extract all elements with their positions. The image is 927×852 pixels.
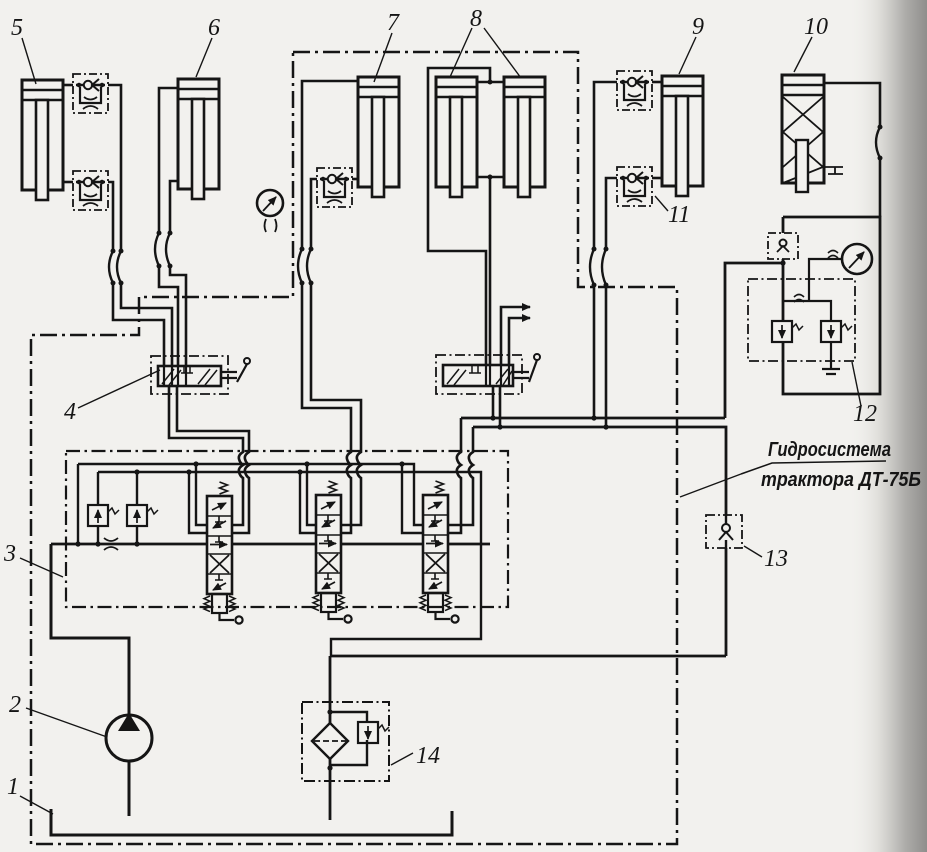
relief valve in block 3 right [127, 505, 158, 526]
upper trunk line to unit 12 [461, 263, 783, 418]
spool section 2 loop wires [300, 464, 316, 533]
wire cylinder7 top port down to spool section 2 [302, 81, 358, 533]
pressure gauge near cylinder 6 [257, 190, 283, 216]
svg-text:10: 10 [804, 14, 828, 40]
svg-text:11: 11 [668, 202, 690, 228]
valve 4b internal flow symbols [447, 365, 512, 386]
pump suction line to tank [128, 761, 131, 816]
wire valve4 output B to spool section 1 [177, 386, 249, 533]
svg-text:14: 14 [416, 743, 440, 769]
hose coupling on line A of cylinder 5 [117, 251, 121, 283]
system boundary dash-dot border [31, 52, 677, 844]
svg-text:Гидросистема: Гидросистема [768, 439, 891, 461]
relief valve in block 3 left [88, 505, 119, 526]
hand control valve 4 dash-dot enclosure [151, 356, 228, 394]
pump supply riser [51, 544, 129, 716]
cylinder 10 single acting with spring [782, 75, 843, 192]
svg-text:4: 4 [64, 399, 76, 425]
wire cylinder9 lower line down to trunk [606, 178, 617, 427]
cylinder 6 [178, 79, 219, 199]
valve 4 hand lever [221, 364, 247, 382]
check valve 13 symbol [722, 524, 730, 532]
filter bypass relief valve [330, 712, 367, 765]
return manifold line to filter unit [330, 655, 726, 658]
internal bus A of block 3 [78, 464, 423, 544]
coupling symbol on pressure rail [104, 538, 118, 550]
pilot check valve at cylinder 9 lower port [617, 167, 652, 206]
wire cylinder9 lower port [652, 177, 662, 180]
svg-text:12: 12 [853, 401, 877, 427]
spool section 2 [313, 481, 352, 623]
svg-text:трактора ДТ-75Б: трактора ДТ-75Б [761, 469, 921, 491]
filter outlet to tank [329, 759, 332, 820]
distributor block 3 dash-dot enclosure [66, 451, 508, 607]
wire cylinder9 upper port [652, 81, 662, 84]
unit 12 gauge [842, 244, 872, 274]
wire from lower check valve down to distributor 4 [108, 182, 164, 366]
hand control valve 4b body [443, 365, 513, 386]
take-off line with arrow upper [501, 307, 530, 365]
internal bus B of block 3 and return line to filter [98, 472, 481, 656]
hose coupling on cylinder9 line B [602, 249, 606, 285]
cylinder 8 right [504, 77, 545, 197]
trunk riser to spool section 3 line B [448, 427, 473, 525]
hose coupling on cylinder9 line A [590, 249, 594, 285]
unit 12 outer body [783, 217, 880, 394]
pilot check valve at cylinder 9 upper port [617, 71, 652, 110]
check valve in unit 12 dash-dot box [768, 233, 798, 259]
annotation leader line [741, 461, 886, 474]
hose coupling on cylinder7 line A [298, 249, 302, 283]
hand control valve 4 body [158, 366, 221, 386]
wire cylinder10 to right riser [824, 83, 880, 217]
spool section 1 [204, 482, 243, 624]
spool section 1 loop wires [189, 464, 207, 533]
wire valve 4b to lower trunk line [499, 386, 502, 427]
cylinder 5 [22, 80, 63, 200]
pilot check valve at cylinder 5 lower port [73, 171, 108, 210]
hand control valve 4b dash-dot enclosure [436, 355, 522, 394]
unit 12 dash-dot enclosure [748, 279, 855, 361]
wire cylinder5 bottom to valve [63, 181, 73, 184]
wire cylinder5 top to valve [63, 84, 73, 87]
filter unit 14 dash-dot enclosure [302, 702, 389, 781]
pilot check valve at cylinder 7 lower port [317, 168, 352, 207]
wire valve4 output A to spool section 1 [169, 386, 243, 525]
pump 2 [106, 715, 152, 761]
filter element [312, 723, 348, 759]
wire cylinder7 lower line down to spool section 2 [311, 179, 361, 525]
wire joining bottoms of cylinders 8 [477, 177, 504, 365]
check valve 13 dash-dot enclosure [706, 515, 742, 548]
svg-text:1: 1 [7, 774, 19, 800]
svg-text:7: 7 [387, 10, 400, 36]
scan shadow on right edge [848, 0, 927, 852]
cylinder 7 [358, 77, 399, 197]
svg-text:13: 13 [764, 546, 788, 572]
hose coupling on cylinder10 riser [876, 127, 880, 158]
wire cylinder7 lower port [352, 178, 358, 181]
svg-text:2: 2 [9, 692, 21, 718]
svg-text:3: 3 [3, 541, 16, 567]
svg-text:5: 5 [11, 15, 23, 41]
cylinder 9 [662, 76, 703, 196]
unit 12 drain to tank symbol [822, 342, 840, 374]
trunk riser to spool section 3 line A [448, 418, 461, 533]
lower trunk line to check valve 13 [473, 427, 726, 656]
take-off line with arrow lower [509, 318, 530, 365]
relief valve b in unit 12 [821, 321, 852, 342]
pilot check valve at cylinder 5 upper port [73, 74, 108, 113]
relief valve a in unit 12 [772, 321, 803, 342]
filter inlet line [329, 656, 332, 723]
hose coupling on cylinder7 line B [307, 249, 311, 283]
hose coupling on cylinder6 line B [166, 233, 170, 266]
spool section 3 [420, 481, 459, 623]
spool section 3 loop wires [402, 464, 423, 533]
wire cylinder6 bottom port down [170, 181, 186, 366]
wire joining tops of cylinders 8 [428, 68, 504, 365]
wire valve 4b to upper trunk line [492, 386, 495, 418]
hose coupling on line B of cylinder 5 [109, 251, 113, 283]
pressure rail from pump through spool sections [51, 543, 490, 546]
valve 4 internal flow symbols [162, 366, 217, 386]
wire cylinder9 upper line down to trunk [594, 82, 617, 418]
cylinder 8 left [436, 77, 477, 197]
wire from upper check valve down to distributor 4 [108, 85, 172, 366]
wire cylinder6 top port down [159, 88, 178, 366]
tank 1 outline [51, 809, 452, 835]
gauge pipe with coupling [783, 259, 842, 321]
svg-text:9: 9 [692, 14, 704, 40]
valve 4b hand lever [513, 360, 537, 382]
hose coupling on cylinder6 line A [155, 233, 159, 266]
svg-text:6: 6 [208, 15, 220, 41]
wire relief valves to pressure rail [98, 472, 137, 543]
